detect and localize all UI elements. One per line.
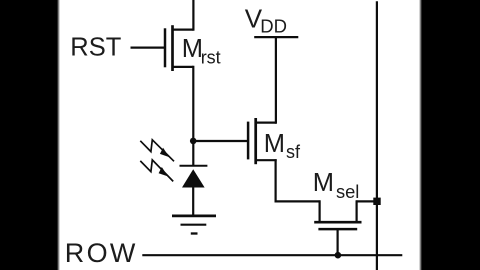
photodiode D1 triangle (182, 169, 205, 187)
transistor M_sf channel bar (254, 118, 257, 164)
transistor M_sel right stub (356, 200, 358, 222)
transistor M_rst channel bar (171, 25, 174, 71)
transistor M_sf gate bar (247, 122, 250, 160)
photon arrow 2 (140, 160, 173, 182)
svg-text:sel: sel (336, 181, 359, 202)
wire M_sel gate lead to ROW (337, 229, 339, 255)
svg-text:M: M (264, 130, 285, 158)
wire M_rst drain to top (192, 0, 194, 31)
svg-text:DD: DD (260, 16, 287, 37)
wire M_sel right terminal to column bus (356, 200, 377, 202)
svg-text:rst: rst (201, 48, 221, 68)
transistor M_sel gate bar (318, 228, 357, 231)
transistor M_sel channel bar (314, 221, 361, 224)
VDD rail bar (254, 36, 298, 38)
wire RST gate lead (131, 46, 165, 48)
node column junction dot (373, 198, 380, 205)
ground bottom line (191, 232, 198, 234)
svg-text:RST: RST (70, 34, 121, 62)
svg-text:ROW: ROW (65, 238, 138, 268)
svg-text:M: M (313, 169, 334, 197)
ground middle line (181, 224, 207, 226)
wire ROW line (142, 254, 402, 256)
node ROW junction dot (335, 252, 342, 259)
photodiode D1 cathode bar (180, 165, 208, 167)
transistor M_rst drain lead (173, 29, 194, 31)
wire column bus (376, 1, 378, 270)
node sense junction dot (190, 138, 197, 145)
photon arrow 1 (140, 140, 174, 162)
transistor M_rst source lead (173, 66, 194, 68)
wire VDD to M_sf drain (275, 36, 277, 124)
wire M_sf source down to M_sel (276, 159, 321, 201)
transistor M_sf drain lead (256, 121, 276, 123)
wire photodiode anode to ground (192, 186, 194, 215)
wire sense node: M_rst source down to photodiode (192, 66, 194, 167)
svg-text:sf: sf (286, 142, 301, 162)
transistor M_sel left stub (319, 200, 321, 222)
wire M_sf gate lead (193, 140, 248, 142)
transistor M_sf source lead (256, 159, 277, 161)
ground top line (172, 215, 216, 218)
transistor M_rst gate bar (164, 28, 167, 67)
